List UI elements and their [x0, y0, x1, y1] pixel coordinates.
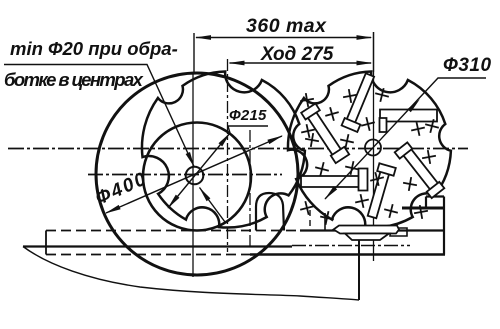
wire bed bottom edge right (solid) — [250, 253, 445, 256]
wire hidden slide edge — [309, 210, 311, 230]
tool holder H6 cap — [377, 163, 396, 175]
arrowheads Hod 275 — [229, 61, 245, 66]
turret head phantom at left stroke position — [142, 72, 305, 228]
wire extension line right — [373, 32, 375, 72]
wire turret slide step — [426, 195, 444, 197]
svg-text:Ход 275: Ход 275 — [260, 44, 334, 65]
svg-text:min Ф20 при обра-: min Ф20 при обра- — [10, 38, 178, 59]
dimension F215 line — [168, 126, 268, 208]
wire turret slide right edge — [443, 197, 445, 255]
wire slide left edge under turret — [324, 213, 326, 230]
wire bed top edge right (solid) — [300, 229, 444, 231]
tool holder H5 right — [399, 143, 441, 193]
wire slide step vertical — [425, 197, 427, 209]
wire clamp tongue — [390, 228, 407, 236]
circle max swing diameter F400 — [96, 73, 298, 275]
tool holder H4 leg — [380, 118, 387, 132]
clamp pad under shoe — [345, 234, 389, 241]
tool holder H5 cap — [395, 142, 413, 158]
wire break line curve — [23, 247, 359, 301]
node left turret position centerline — [227, 59, 229, 252]
node spindle axis (horizontal dash-dot) — [8, 148, 468, 150]
circle F215 — [143, 123, 251, 231]
node wheel vertical centerline — [192, 72, 194, 277]
wire carriage hump — [256, 193, 284, 231]
svg-text:ботке в центрах: ботке в центрах — [4, 69, 144, 90]
clamp shoe under turret — [334, 226, 400, 234]
wire hidden bed bottom edge (dashed) — [46, 254, 250, 256]
svg-text:Ф310: Ф310 — [443, 55, 492, 76]
turret head outline — [288, 72, 451, 228]
tool holder H2 upper-left — [305, 108, 345, 162]
leader to center from lower right — [200, 188, 226, 223]
tool holder H3 left horizontal — [301, 176, 361, 187]
tool holder H2 foot — [331, 147, 349, 163]
tool position marks (+) — [300, 88, 439, 225]
dimension F400 line — [106, 136, 282, 213]
svg-text:Ф215: Ф215 — [229, 107, 267, 124]
node wheel axis (horizontal dash-dot) — [88, 174, 282, 176]
tool holder H2 cap — [301, 104, 320, 120]
spindle center circle — [186, 167, 204, 185]
node turret vertical centerline — [373, 32, 375, 261]
tool holder H4 top-right horizontal — [380, 110, 437, 122]
wire dimension line Hod 275 — [230, 62, 372, 64]
wire cut boundary vertical — [358, 240, 360, 300]
wire turret slide base line — [402, 207, 444, 210]
wire dimension line 360 max — [196, 37, 371, 39]
tool holder H3 cap — [359, 169, 368, 191]
tool holder H1 top — [346, 73, 374, 124]
leader min F20 — [4, 65, 194, 167]
dimension F310 line — [325, 78, 486, 199]
tool holder H6 bottom — [368, 171, 390, 219]
wire hidden bed top edge (dashed) — [46, 230, 300, 232]
tool holder H1 cap — [342, 118, 361, 132]
turret center circle — [365, 140, 381, 156]
tool holder H5 bottom cap — [427, 182, 445, 198]
wire hidden bed left edge — [45, 231, 47, 255]
wire bed axis dash-dot — [292, 245, 410, 247]
wire bed front top edge — [23, 245, 292, 247]
wire extension line left (360 max) — [193, 33, 195, 72]
node F215 tangent centerline — [249, 130, 251, 250]
svg-text:360 mах: 360 mах — [246, 15, 327, 37]
arrowheads 360 max — [195, 35, 211, 40]
